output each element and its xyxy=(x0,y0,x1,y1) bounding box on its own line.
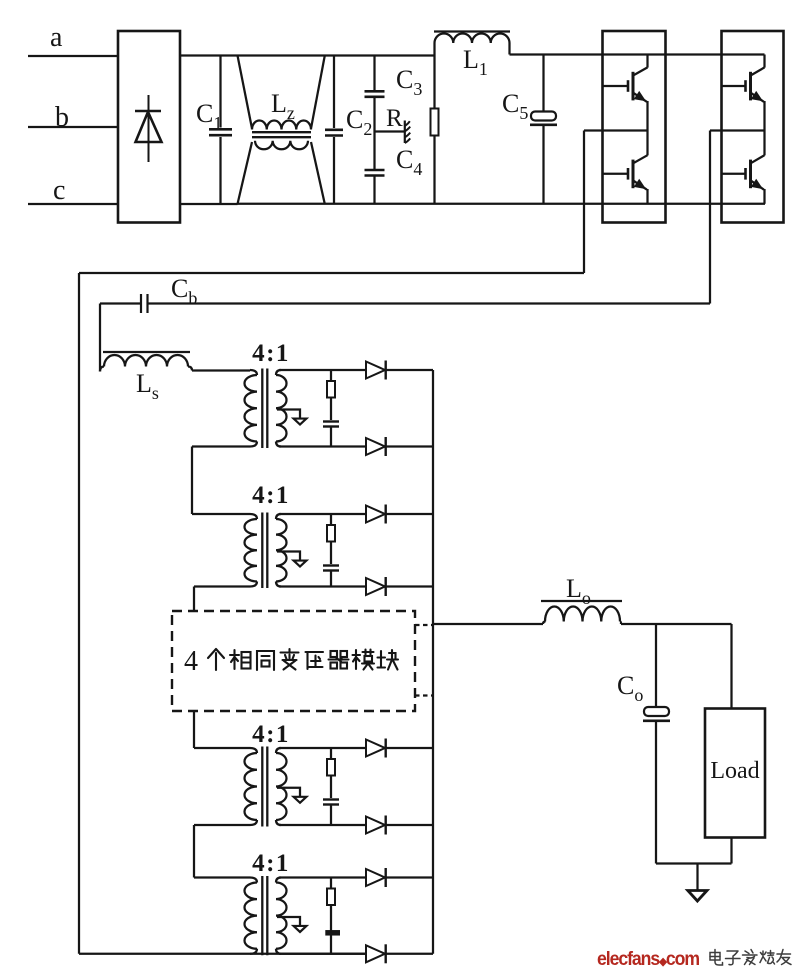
gate bar xyxy=(744,168,747,180)
secondary bottom wire xyxy=(279,953,366,955)
secondary top wire xyxy=(279,513,366,515)
snubber resistor xyxy=(330,878,332,889)
dashed connector lower xyxy=(415,694,433,696)
transformer primary winding xyxy=(250,514,257,519)
transformer core xyxy=(261,369,263,449)
snubber capacitor xyxy=(323,798,339,800)
secondary top wire xyxy=(279,369,366,371)
svg-text:elecfans◆com: elecfans◆com xyxy=(597,949,699,970)
capacitor C1 xyxy=(219,56,221,128)
transformer primary winding xyxy=(250,370,257,375)
gate bar xyxy=(627,168,630,180)
snubber capacitor xyxy=(323,564,339,566)
transformer secondary winding xyxy=(276,370,281,375)
svg-text:4:1: 4:1 xyxy=(252,850,290,877)
svg-text:c: c xyxy=(53,175,65,206)
wire U1 mid drop xyxy=(583,131,585,274)
wire U2 mid drop xyxy=(709,131,711,304)
resistor damping leg under L1 xyxy=(433,43,435,109)
wire diode to bus xyxy=(386,747,433,749)
wire T3 primary return xyxy=(194,824,250,826)
wire top rail right xyxy=(510,53,765,55)
wire diode to bus xyxy=(386,876,433,878)
wire down to Ls xyxy=(99,304,101,372)
diode symbol inside rectifier xyxy=(148,95,150,162)
transformer primary winding xyxy=(250,748,257,753)
capacitor C5 xyxy=(542,55,544,113)
snubber capacitor xyxy=(330,928,332,931)
diode xyxy=(366,362,385,379)
secondary center tap arrow xyxy=(277,788,300,797)
wire bottom return to left bus xyxy=(79,953,366,955)
transformer core xyxy=(261,513,263,589)
wire U2 midpoint xyxy=(710,129,765,131)
gate bar xyxy=(744,80,747,92)
svg-text:4:1: 4:1 xyxy=(252,721,290,748)
diode xyxy=(366,945,385,962)
left bus vertical xyxy=(78,273,80,954)
watermark chinese brand (drawn glyphs) xyxy=(710,950,791,966)
diode xyxy=(366,578,385,595)
capacitor C4 xyxy=(365,169,385,172)
secondary top wire xyxy=(279,747,366,749)
emitter lead with arrow xyxy=(633,93,647,102)
wire phase a xyxy=(28,55,118,57)
dashed box: 4 identical transformer modules xyxy=(172,611,415,711)
diode xyxy=(366,438,385,455)
body bar xyxy=(749,72,752,101)
transformer primary winding xyxy=(250,878,257,883)
gate lead xyxy=(603,85,628,87)
gate lead xyxy=(722,173,746,175)
collector lead xyxy=(751,67,765,75)
resistor R (damping stub) xyxy=(375,130,405,132)
wire Lo to load xyxy=(621,623,732,625)
capacitor C2 xyxy=(333,56,335,129)
wire module box to T3 xyxy=(193,711,195,748)
right output bus xyxy=(432,370,434,954)
body bar xyxy=(749,160,752,189)
svg-text:R: R xyxy=(386,105,403,132)
emitter lead with arrow xyxy=(751,181,764,190)
collector lead xyxy=(633,155,647,163)
inductor Lo xyxy=(541,600,622,602)
load box xyxy=(705,709,765,838)
svg-text:4:1: 4:1 xyxy=(252,482,290,509)
secondary bottom wire xyxy=(279,445,366,447)
snubber resistor xyxy=(330,748,332,759)
capacitor Co branch xyxy=(655,624,657,708)
wire T2 primary to module box xyxy=(194,585,250,587)
svg-text:b: b xyxy=(55,102,69,133)
text: 4 identical transformer modules (drawn glyphs) xyxy=(184,646,398,677)
inductor L1 xyxy=(434,30,510,32)
secondary bottom wire xyxy=(279,585,366,587)
svg-text:4: 4 xyxy=(184,646,198,677)
secondary center tap arrow xyxy=(277,917,300,926)
dashed connector upper xyxy=(415,624,433,626)
svg-text:4:1: 4:1 xyxy=(252,340,290,367)
snubber capacitor xyxy=(323,420,339,422)
snubber resistor xyxy=(330,370,332,381)
capacitor Cb xyxy=(140,294,142,313)
wire to left bus xyxy=(79,272,584,274)
wire load bottom xyxy=(730,838,732,864)
transformer secondary winding xyxy=(276,514,281,519)
snubber resistor xyxy=(330,514,332,525)
emitter lead with arrow xyxy=(633,181,647,190)
transformer secondary winding xyxy=(276,748,281,753)
IGBT module box U1 xyxy=(603,31,666,223)
svg-text:a: a xyxy=(50,22,63,53)
diode xyxy=(366,740,385,757)
inductor Ls xyxy=(100,367,104,372)
ground symbol xyxy=(696,864,698,891)
gate lead xyxy=(722,85,746,87)
wire top rail left xyxy=(180,54,435,56)
wire diode to bus xyxy=(386,369,433,371)
gate bar xyxy=(627,80,630,92)
emitter lead with arrow xyxy=(751,93,764,102)
body bar xyxy=(632,160,635,189)
diode xyxy=(366,817,385,834)
wire bus to Lo xyxy=(433,623,543,625)
transformer core xyxy=(261,747,263,827)
secondary bottom wire xyxy=(279,824,366,826)
secondary center tap arrow xyxy=(277,410,300,419)
secondary top wire xyxy=(279,876,366,878)
wire phase b xyxy=(28,126,118,128)
capacitor C3 xyxy=(373,56,375,91)
diode xyxy=(366,506,385,523)
gate lead xyxy=(603,173,628,175)
diode xyxy=(366,869,385,886)
wire Ls to T1 xyxy=(192,369,250,371)
svg-text:Load: Load xyxy=(710,758,759,784)
secondary center tap arrow xyxy=(277,552,300,561)
coupled inductor Lz xyxy=(238,56,253,129)
wire U1 midpoint xyxy=(584,129,648,131)
wire T1 primary return xyxy=(192,445,250,447)
body bar xyxy=(632,72,635,101)
wire phase c xyxy=(28,203,118,205)
rectifier bridge block xyxy=(118,31,180,223)
collector lead xyxy=(751,155,765,163)
IGBT module box U2 xyxy=(722,31,784,223)
transformer secondary winding xyxy=(276,878,281,883)
wire Cb line xyxy=(148,302,711,304)
collector lead xyxy=(633,67,647,75)
wire bottom rail main xyxy=(237,203,765,205)
wire bottom rail left xyxy=(180,203,238,205)
transformer core xyxy=(261,876,263,955)
wire diode to bus xyxy=(386,513,433,515)
